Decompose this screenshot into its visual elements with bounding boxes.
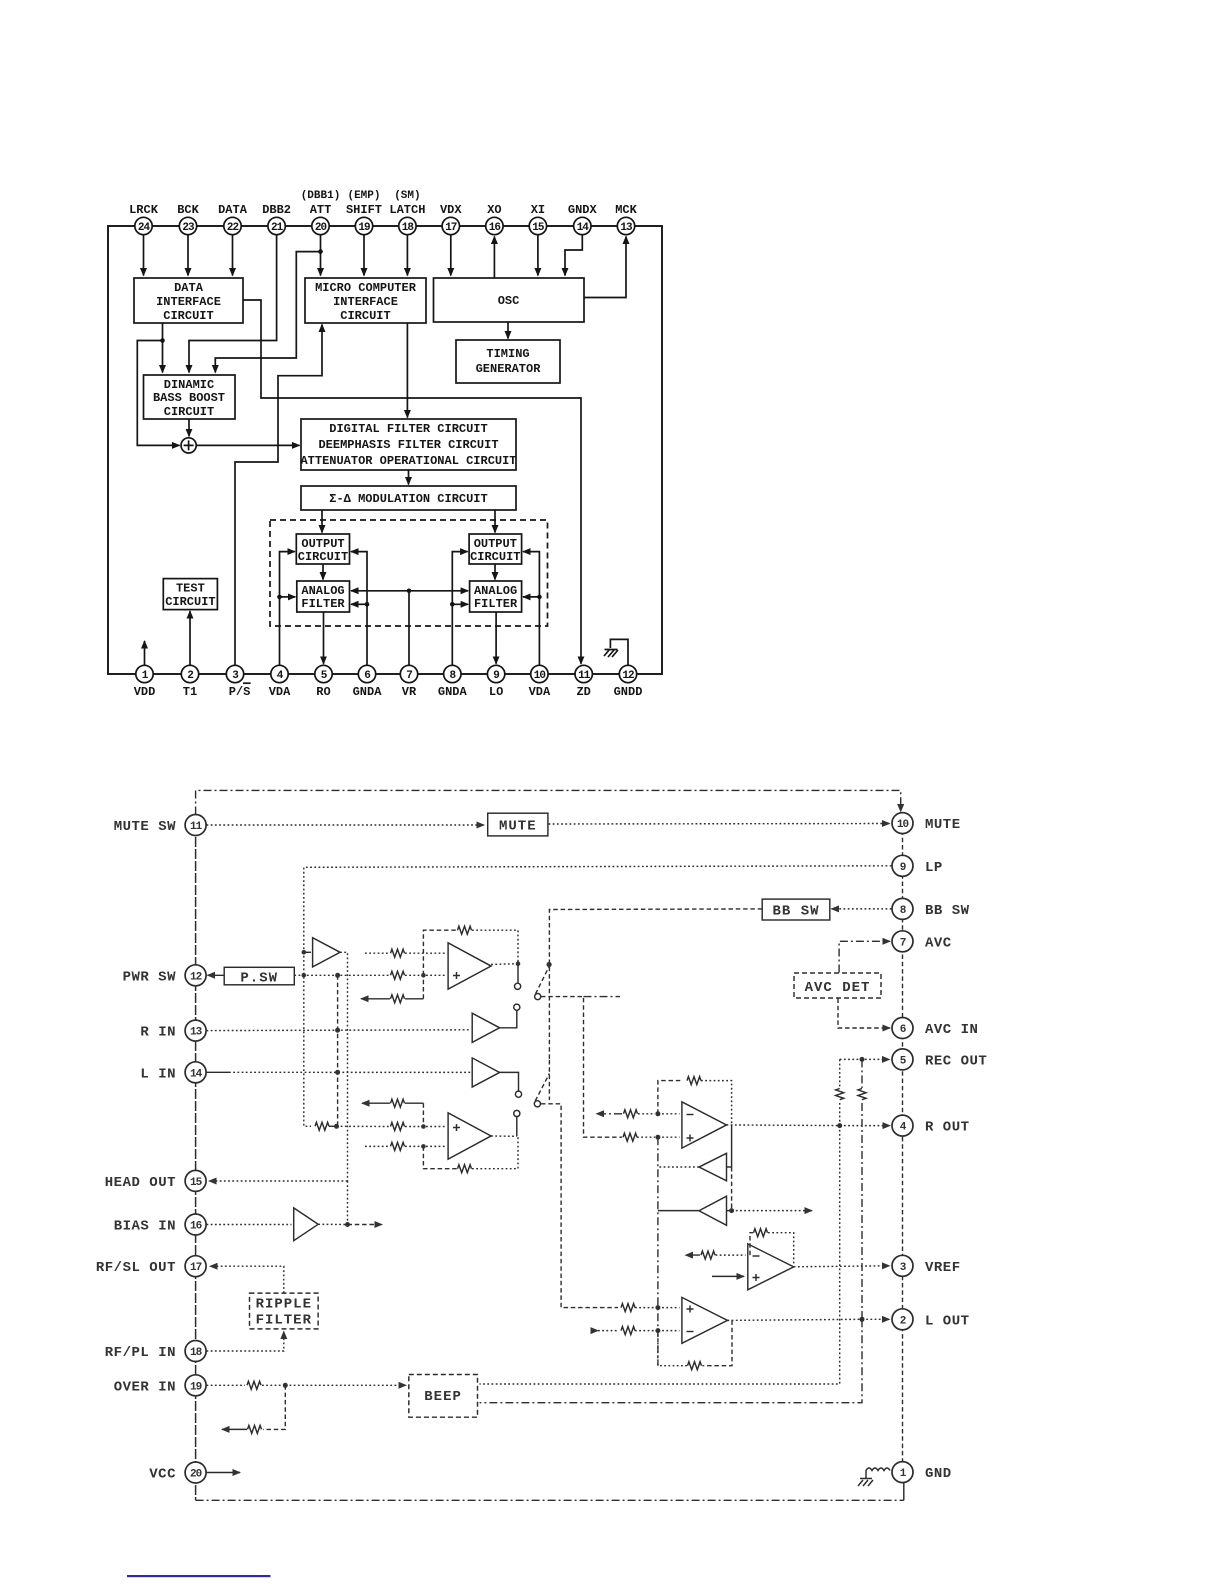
OA5 feedback resistor loop (703, 1320, 733, 1365)
svg-text:GNDA: GNDA (353, 685, 383, 699)
wire pin7 AVC from AVC DET (839, 941, 890, 972)
wire adder to DIGITAL FILTER (196, 444, 299, 446)
wire pin14 GNDX to OSC (565, 235, 582, 276)
wire pin9 LP feed (304, 866, 892, 1127)
block: AVC DET (dashed) (794, 973, 881, 998)
chassis ground symbol (604, 649, 618, 657)
buffer T3 R-IN (472, 1013, 499, 1042)
block: DATA INTERFACE CIRCUIT (134, 278, 243, 323)
svg-text:GND: GND (925, 1466, 952, 1482)
wire pin18 LATCH to MICRO COMPUTER INTERFACE (406, 235, 408, 276)
svg-text:VDD: VDD (134, 685, 156, 699)
svg-text:24: 24 (138, 222, 151, 234)
pin 19 SHIFT (355, 217, 372, 234)
svg-text:15: 15 (190, 1177, 203, 1189)
wire pin14 L IN to buffer (207, 1071, 230, 1073)
svg-text:AVC IN: AVC IN (925, 1022, 978, 1038)
wire MICRO COMPUTER INTERFACE to DIGITAL FILTER (406, 323, 408, 418)
pin 3 P/S (226, 665, 243, 682)
pin 14 GNDX (574, 217, 591, 234)
svg-text:OUTPUT: OUTPUT (301, 537, 344, 551)
wire DATA INTERFACE to pin11 ZD (243, 300, 581, 664)
pin 19 OVER IN (185, 1375, 206, 1396)
wire pin12 GNDD to chassis ground (610, 639, 628, 665)
wire AVC DET to pin6 AVC IN (838, 999, 890, 1029)
wire OSC to TIMING GENERATOR (507, 322, 509, 339)
svg-text:OVER IN: OVER IN (114, 1379, 176, 1395)
switch lower common contact (534, 1101, 540, 1107)
wire DATA INTERFACE to DINAMIC BASS BOOST (162, 323, 164, 373)
svg-text:L OUT: L OUT (925, 1313, 970, 1329)
wire DIGITAL FILTER to SIGMA-DELTA (408, 470, 410, 485)
pin 3 VREF (892, 1255, 913, 1276)
svg-text:9: 9 (493, 670, 499, 682)
wire OSC to pin16 XO (493, 237, 495, 279)
IC2 right pin rail (902, 823, 904, 1472)
pin 9 LP (892, 855, 913, 876)
wire pin8 GNDA to OUTPUT/ANALOG right (452, 552, 467, 666)
svg-text:L IN: L IN (140, 1066, 176, 1082)
wire pin17 VDX to OSC (450, 235, 452, 276)
OA2 bias row with resistor (405, 1102, 423, 1104)
wire RF/SL OUT from RIPPLE FILTER (210, 1266, 284, 1293)
summing adder node (181, 438, 196, 453)
wire ANALOG FILTER right to pin9 LO (495, 612, 497, 664)
svg-text:18: 18 (190, 1347, 203, 1359)
svg-text:DINAMIC: DINAMIC (164, 378, 214, 392)
vertical bus from P.SW junction (337, 975, 339, 1126)
svg-text:T1: T1 (183, 685, 197, 699)
pin 10 MUTE (892, 813, 913, 834)
wire pin7 VR to both ANALOG FILTERs (408, 591, 410, 666)
svg-text:MUTE SW: MUTE SW (114, 819, 176, 835)
switch upper common line to OA3 (541, 997, 622, 1138)
svg-text:GNDD: GNDD (614, 685, 643, 699)
wire pin23 BCK to DATA INTERFACE (187, 235, 189, 276)
pin 8 GNDA (444, 665, 461, 682)
wire pin6 GNDA to OUTPUT/ANALOG left (351, 552, 367, 666)
wire pin13 R IN to buffer (207, 1029, 471, 1032)
mix resistor from L OUT (861, 1059, 863, 1088)
wire pin10 VDA to OUTPUT/ANALOG right (523, 552, 539, 666)
OA1 output to switch contact (491, 963, 518, 966)
pin 5 REC OUT (892, 1049, 913, 1070)
svg-text:CIRCUIT: CIRCUIT (165, 595, 215, 609)
wire SIGMA-DELTA to OUTPUT CIRCUIT left (321, 510, 323, 533)
svg-text:11: 11 (578, 670, 591, 682)
pin 4 R OUT (892, 1115, 913, 1136)
svg-text:6: 6 (900, 1024, 906, 1036)
block: RIPPLE FILTER (dashed) (250, 1293, 319, 1329)
footer rule (127, 1575, 271, 1577)
svg-text:XI: XI (531, 203, 545, 217)
svg-text:CIRCUIT: CIRCUIT (470, 550, 520, 564)
svg-text:XO: XO (487, 203, 501, 217)
buffer T4 L-IN (472, 1058, 499, 1087)
svg-text:6: 6 (364, 670, 370, 682)
opamp OA3 right-channel output amp (597, 1113, 623, 1115)
svg-text:CIRCUIT: CIRCUIT (298, 550, 348, 564)
svg-text:23: 23 (182, 222, 195, 234)
svg-text:AVC: AVC (925, 935, 952, 951)
wire pin19 SHIFT to MICRO COMPUTER INTERFACE (363, 235, 365, 276)
svg-text:16: 16 (190, 1221, 202, 1233)
pin 8 BB SW (892, 898, 913, 919)
pin 10 VDA (531, 665, 548, 682)
pin 23 BCK (179, 217, 196, 234)
svg-text:FILTER: FILTER (474, 597, 518, 611)
wire pin8 BB SW to BB SW block (832, 908, 892, 910)
pin 16 XO (486, 217, 503, 234)
svg-text:13: 13 (190, 1027, 203, 1039)
svg-text:7: 7 (900, 937, 906, 949)
svg-text:17: 17 (190, 1262, 202, 1274)
BEEP return to R channel (480, 1126, 840, 1384)
OA4 feedback resistor loop (750, 1233, 753, 1255)
svg-text:DIGITAL FILTER CIRCUIT: DIGITAL FILTER CIRCUIT (329, 422, 487, 436)
wire ANALOG FILTER left to pin5 RO (323, 612, 325, 664)
svg-text:MCK: MCK (615, 203, 637, 217)
svg-text:BB SW: BB SW (925, 903, 970, 919)
svg-text:ZD: ZD (576, 685, 590, 699)
pin 12 PWR SW (185, 965, 206, 986)
svg-text:VDX: VDX (440, 203, 462, 217)
T5 output and junction (318, 1223, 347, 1225)
svg-text:BB SW: BB SW (772, 904, 819, 920)
wire OUTPUT to ANALOG FILTER left (322, 564, 324, 580)
pin 2 T1 (181, 665, 198, 682)
IC2 bottom rail (196, 1499, 904, 1501)
buffer T1 after power switch (304, 951, 311, 953)
svg-text:HEAD OUT: HEAD OUT (105, 1175, 176, 1191)
mix resistor from R OUT (839, 1059, 841, 1088)
switch upper common contact (535, 994, 541, 1000)
switch lower contact B (514, 1110, 520, 1116)
svg-text:7: 7 (406, 670, 412, 682)
svg-text:GENERATOR: GENERATOR (476, 362, 542, 376)
opamp OA1 right-channel input stage (448, 943, 491, 989)
switch upper contact A (515, 983, 521, 989)
switch lower wiper arm (535, 1074, 549, 1102)
wire HEAD OUT pin15 (209, 1180, 348, 1182)
svg-text:ATT: ATT (310, 203, 332, 217)
svg-text:DBB2: DBB2 (262, 203, 291, 217)
block: BEEP (dashed) (409, 1375, 478, 1418)
svg-text:R OUT: R OUT (925, 1120, 970, 1136)
junction on ATT wire (318, 249, 323, 254)
svg-text:VR: VR (402, 685, 417, 699)
svg-text:SHIFT: SHIFT (346, 203, 382, 217)
switch upper wiper arm (536, 967, 550, 995)
pin 18 LATCH (399, 217, 416, 234)
vertical bus left of OA3 (657, 1137, 659, 1366)
wire OUTPUT to ANALOG FILTER right (494, 564, 496, 580)
svg-text:LO: LO (489, 685, 503, 699)
wire pin3 P/S to MICRO COMPUTER INTERFACE (235, 325, 322, 666)
pin 24 LRCK (135, 217, 152, 234)
svg-text:LP: LP (925, 860, 943, 876)
svg-text:MUTE: MUTE (925, 817, 961, 833)
chassis ground at pin1 GND (866, 1468, 890, 1479)
svg-text:GNDA: GNDA (438, 685, 468, 699)
wire P.SW input from pin12 (208, 974, 225, 976)
OA1 feedback resistor loop (423, 930, 457, 975)
svg-text:RF/PL IN: RF/PL IN (105, 1345, 176, 1361)
pin 20 VCC (185, 1462, 206, 1483)
pin 22 DATA (224, 217, 241, 234)
buffer T6 (left-pointing) (731, 1125, 733, 1167)
pin 11 ZD (575, 665, 592, 682)
svg-text:OSC: OSC (498, 294, 520, 308)
wire MUTE SW to MUTE block (207, 824, 485, 826)
svg-text:VREF: VREF (925, 1260, 961, 1276)
svg-text:17: 17 (445, 222, 457, 234)
block: MICRO COMPUTER INTERFACE CIRCUIT (305, 278, 426, 323)
svg-text:22: 22 (227, 222, 239, 234)
overline of S in P/S (243, 682, 251, 684)
svg-text:18: 18 (402, 222, 415, 234)
svg-text:10: 10 (897, 819, 909, 831)
pin 1 VDD (136, 665, 153, 682)
svg-text:BCK: BCK (177, 203, 199, 217)
OVER IN branch with resistor (263, 1385, 285, 1429)
opamp OA2 left-channel input stage (448, 1113, 491, 1159)
svg-text:BIAS IN: BIAS IN (114, 1219, 176, 1235)
pin 6 AVC IN (892, 1018, 913, 1039)
svg-text:TEST: TEST (176, 582, 205, 596)
OA3 feedback resistor loop (658, 1081, 681, 1114)
block: DINAMIC BASS BOOST CIRCUIT (144, 375, 236, 419)
pin 9 LO (487, 665, 504, 682)
svg-text:9: 9 (900, 862, 906, 874)
block: OUTPUT CIRCUIT (left) (296, 534, 349, 564)
svg-text:FILTER: FILTER (256, 1313, 312, 1329)
opamp OA4 VREF buffer (686, 1254, 701, 1256)
pin 4 VDA (271, 665, 288, 682)
wire MUTE block to pin10 MUTE (549, 823, 890, 826)
switch lower common line to OA5 (541, 1104, 618, 1308)
wire BB SW block to switch gang (549, 909, 762, 1060)
svg-text:CIRCUIT: CIRCUIT (164, 405, 214, 419)
svg-text:LATCH: LATCH (389, 203, 425, 217)
svg-text:INTERFACE: INTERFACE (333, 295, 398, 309)
svg-text:MICRO COMPUTER: MICRO COMPUTER (315, 281, 417, 295)
svg-text:ANALOG: ANALOG (474, 584, 517, 598)
svg-text:RIPPLE: RIPPLE (256, 1297, 312, 1313)
svg-text:R IN: R IN (140, 1025, 176, 1041)
svg-text:TIMING: TIMING (486, 347, 529, 361)
svg-text:REC OUT: REC OUT (925, 1053, 987, 1069)
block: OUTPUT CIRCUIT (right) (469, 534, 521, 564)
svg-text:VCC: VCC (149, 1467, 176, 1483)
T3 output to switch contact B (500, 1011, 517, 1028)
wire pin1 VDD stub (144, 641, 146, 665)
svg-text:2: 2 (900, 1315, 906, 1327)
svg-text:DATA: DATA (174, 281, 204, 295)
wire pin2 T1 to TEST CIRCUIT (189, 611, 191, 665)
wire pin4 VDA to OUTPUT/ANALOG left (280, 552, 295, 666)
pin 2 L OUT (892, 1309, 913, 1330)
svg-text:DATA: DATA (218, 203, 248, 217)
svg-text:11: 11 (190, 821, 203, 833)
wire pin21 DBB2 to DINAMIC BASS BOOST (189, 235, 277, 373)
OA2 input row upper with resistor (337, 1125, 391, 1127)
wire SIGMA-DELTA to OUTPUT CIRCUIT right (494, 510, 496, 533)
OA4 output to pin3 VREF (794, 1266, 890, 1267)
block: TEST CIRCUIT (163, 579, 217, 610)
svg-text:DEEMPHASIS FILTER CIRCUIT: DEEMPHASIS FILTER CIRCUIT (318, 438, 498, 452)
svg-text:21: 21 (271, 222, 284, 234)
wire DINAMIC BASS BOOST to adder (188, 419, 190, 436)
block: ANALOG FILTER (right) (470, 581, 522, 612)
svg-text:RO: RO (316, 685, 330, 699)
svg-text:12: 12 (190, 971, 202, 983)
OA2 output to switch contact (491, 1135, 517, 1137)
pin 1 GND (892, 1462, 913, 1483)
wire OSC to pin13 MCK (584, 237, 626, 298)
T7 output arrow to AVC detector (732, 1210, 812, 1212)
pin 15 HEAD OUT (185, 1170, 206, 1191)
pin 13 R IN (185, 1020, 206, 1041)
T4 output to switch lower contact (500, 1072, 519, 1091)
svg-text:13: 13 (620, 222, 633, 234)
svg-text:RF/SL OUT: RF/SL OUT (96, 1260, 176, 1276)
block: MUTE (488, 813, 548, 836)
OA5 output to pin2 L OUT (727, 1319, 862, 1320)
wire junction to adder (137, 341, 179, 446)
svg-text:(SM): (SM) (394, 190, 420, 202)
block: BB SW (762, 899, 830, 920)
pin 17 RF/SL OUT (185, 1256, 206, 1277)
svg-text:P.SW: P.SW (240, 970, 278, 986)
svg-text:20: 20 (190, 1469, 202, 1481)
opamp OA5 left-channel output amp (682, 1297, 728, 1343)
wire OVER IN to BEEP (207, 1384, 246, 1386)
svg-text:19: 19 (190, 1381, 202, 1393)
svg-text:(DBB1): (DBB1) (301, 190, 341, 202)
pin 11 MUTE SW (185, 815, 206, 836)
svg-text:16: 16 (489, 222, 501, 234)
svg-text:10: 10 (534, 670, 546, 682)
svg-text:GNDX: GNDX (568, 203, 598, 217)
wire pin24 LRCK to DATA INTERFACE (143, 235, 145, 276)
pin 14 L IN (185, 1062, 206, 1083)
svg-text:19: 19 (358, 222, 370, 234)
svg-text:15: 15 (532, 222, 545, 234)
IC2 schematic top rail (196, 790, 901, 814)
buffer T7 (left-pointing) (731, 1167, 733, 1211)
pin 6 GNDA (358, 665, 375, 682)
pin 21 DBB2 (268, 217, 285, 234)
svg-text:PWR SW: PWR SW (123, 969, 177, 985)
svg-text:Σ-Δ MODULATION CIRCUIT: Σ-Δ MODULATION CIRCUIT (329, 492, 487, 506)
OA2 lower input row with resistor (365, 1145, 390, 1147)
svg-text:FILTER: FILTER (301, 597, 345, 611)
IC2 left pin rail (195, 825, 197, 1500)
svg-text:12: 12 (622, 670, 634, 682)
svg-text:VDA: VDA (529, 685, 551, 699)
block: TIMING GENERATOR (456, 340, 560, 383)
wire pin22 DATA to DATA INTERFACE (232, 235, 234, 276)
wire VCC stub (207, 1472, 241, 1474)
pin 5 RO (315, 665, 332, 682)
OA3 output to pin4 R OUT (727, 1124, 840, 1127)
junction below DATA INTERFACE (160, 338, 165, 343)
svg-text:INTERFACE: INTERFACE (156, 295, 221, 309)
pin 13 MCK (617, 217, 634, 234)
svg-text:2: 2 (187, 670, 193, 682)
REC OUT mix node wiring (840, 1058, 890, 1060)
pin 7 AVC (892, 931, 913, 952)
pin 20 ATT (312, 217, 329, 234)
svg-text:OUTPUT: OUTPUT (474, 537, 517, 551)
wire T1 output to HEAD OUT (340, 952, 347, 1181)
svg-text:14: 14 (577, 222, 590, 234)
svg-text:VDA: VDA (269, 685, 291, 699)
svg-text:BEEP: BEEP (424, 1389, 462, 1405)
wire pin20 ATT to MICRO COMPUTER INTERFACE (320, 235, 322, 276)
block: OSC (434, 278, 585, 322)
OA5 lower input row (598, 1330, 618, 1332)
OA2 feedback resistor loop (423, 1146, 457, 1168)
svg-text:CIRCUIT: CIRCUIT (340, 309, 390, 323)
wire RF/PL IN to RIPPLE FILTER (207, 1332, 284, 1352)
junction dots on input bus (302, 950, 307, 955)
svg-text:LRCK: LRCK (129, 203, 159, 217)
svg-text:20: 20 (315, 222, 327, 234)
wire pin15 XI to OSC (537, 235, 539, 276)
svg-text:(EMP): (EMP) (347, 190, 380, 202)
block: DIGITAL FILTER / DEEMPHASIS FILTER / ATTENUATOR OPERATIONAL CIRCUIT (301, 419, 516, 470)
wire P.SW output to opamp OA1 (294, 974, 390, 976)
BEEP return to L channel (480, 1319, 863, 1402)
svg-text:AVC DET: AVC DET (805, 980, 871, 996)
dashed analog section boundary (270, 520, 548, 626)
svg-text:ANALOG: ANALOG (301, 584, 344, 598)
svg-text:MUTE: MUTE (499, 819, 537, 835)
pin 18 RF/PL IN (185, 1341, 206, 1362)
pin 12 GNDD (619, 665, 636, 682)
pin 15 XI (529, 217, 546, 234)
pin 17 VDX (442, 217, 459, 234)
IC1 block diagram outer boundary (108, 226, 662, 674)
svg-text:CIRCUIT: CIRCUIT (163, 309, 213, 323)
svg-text:14: 14 (190, 1068, 203, 1080)
block: ANALOG FILTER (left) (297, 581, 350, 612)
block: P.SW (224, 967, 294, 985)
svg-text:P/S: P/S (229, 685, 251, 699)
svg-text:BASS BOOST: BASS BOOST (153, 391, 225, 405)
block: SIGMA-DELTA MODULATION CIRCUIT (301, 486, 516, 510)
OA1 minus input row with resistor (365, 952, 390, 954)
OA1 bias row with resistor (405, 998, 423, 1000)
wire ATT branch to DINAMIC BASS BOOST (215, 252, 320, 373)
buffer T5 BIAS (207, 1224, 292, 1226)
pin 7 VR (400, 665, 417, 682)
pin 16 BIAS IN (185, 1214, 206, 1235)
svg-text:ATTENUATOR OPERATIONAL CIRCUIT: ATTENUATOR OPERATIONAL CIRCUIT (300, 454, 516, 468)
